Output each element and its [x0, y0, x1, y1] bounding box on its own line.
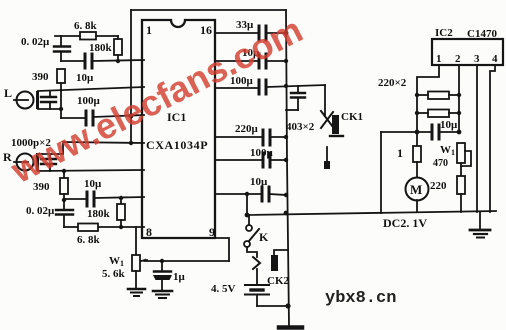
resistor 220 a	[428, 92, 449, 100]
input jack R	[17, 154, 34, 171]
wire L bottom rail	[38, 108, 61, 110]
svg-text:1: 1	[397, 146, 403, 160]
wire R top rail	[38, 153, 63, 155]
wire top rail from bias column to bus	[131, 9, 286, 11]
svg-text:10μ: 10μ	[440, 119, 458, 131]
svg-text:10μ: 10μ	[84, 178, 102, 190]
svg-text:180k: 180k	[89, 42, 113, 54]
jack CK2	[247, 247, 257, 257]
capacitor 100u lower	[262, 153, 265, 167]
wire pin16 33u output	[215, 32, 258, 34]
svg-text:6. 8k: 6. 8k	[77, 234, 101, 246]
svg-text:1μ: 1μ	[173, 271, 186, 283]
resistor 180k top	[114, 39, 122, 55]
junction 180k bottom	[116, 59, 120, 63]
resistor 180k bottom	[119, 196, 123, 200]
svg-text:2: 2	[455, 53, 461, 65]
resistor 6.8k top	[80, 32, 96, 40]
capacitor 100u input L	[61, 117, 85, 119]
wire IC2 pin3	[476, 65, 478, 212]
capacitor 10u bottom series	[64, 198, 86, 200]
site label ybx8.cn	[325, 289, 396, 308]
capacitor 10u top series	[84, 54, 87, 68]
capacitor 10u bottom right	[261, 187, 264, 201]
capacitor 220u	[262, 130, 265, 145]
svg-text:10μ: 10μ	[76, 72, 94, 84]
capacitor 33u	[258, 26, 261, 40]
resistor 220 b	[428, 110, 449, 118]
potentiometer W1 5.6k	[135, 227, 137, 255]
svg-text:K: K	[259, 230, 269, 244]
IC1 CXA1034P body	[142, 20, 215, 238]
svg-text:CXA1034P: CXA1034P	[146, 138, 208, 152]
svg-text:220×2: 220×2	[378, 77, 407, 89]
switch K	[248, 215, 250, 225]
svg-text:100μ: 100μ	[77, 95, 101, 107]
wire drop to switch K	[245, 192, 249, 196]
resistor 1	[416, 132, 418, 146]
DC supply rail	[247, 211, 496, 215]
wire pin 9 down	[215, 238, 229, 261]
IC2 C1470 box	[432, 39, 503, 65]
svg-text:4. 5V: 4. 5V	[211, 283, 236, 295]
resistor 6.8k bottom	[64, 226, 78, 228]
capacitor 1000p L	[49, 92, 51, 96]
motor M	[406, 178, 429, 201]
wire feedback node L to IC pin2	[61, 60, 84, 62]
ground below 1u	[153, 290, 172, 293]
svg-text:6. 8k: 6. 8k	[74, 20, 98, 32]
capacitor 100u right	[258, 80, 261, 94]
svg-text:0. 02μ: 0. 02μ	[21, 36, 50, 48]
svg-text:10μ: 10μ	[250, 176, 268, 188]
capacitor shunt at headphone line	[297, 86, 299, 92]
watermark www.elecfans.com	[4, 9, 309, 192]
svg-text:16: 16	[200, 23, 212, 37]
wire IC2 pin4	[490, 65, 495, 212]
wire R bottom rail to IC pin5	[38, 170, 144, 171]
resistor 220 right	[457, 176, 465, 194]
wire wiper line to pin 9 column	[146, 260, 229, 262]
capacitor 10u right	[258, 54, 261, 68]
ground right	[479, 212, 481, 230]
wire DC feed with 10u cap	[381, 131, 431, 133]
svg-text:IC2: IC2	[435, 27, 453, 39]
ground bottom center	[279, 325, 302, 330]
resistor 390 top	[57, 69, 65, 83]
svg-text:8: 8	[146, 225, 152, 239]
resistor 390 bottom	[63, 171, 65, 178]
svg-text:DC2. 1V: DC2. 1V	[383, 216, 427, 230]
svg-text:C1470: C1470	[467, 28, 497, 40]
power bus vertical	[286, 10, 289, 325]
svg-text:3: 3	[474, 53, 480, 65]
svg-text:390: 390	[32, 71, 49, 83]
capacitor 1u	[161, 261, 163, 271]
wire 10u right output	[215, 60, 258, 62]
svg-text:CK1: CK1	[341, 111, 363, 123]
capacitor 0.02u bottom	[63, 200, 65, 209]
ground below W1	[128, 288, 145, 291]
wire IC2 pin1	[417, 65, 439, 132]
svg-text:W1: W1	[440, 144, 455, 157]
svg-text:220: 220	[430, 180, 447, 192]
potentiometer W1 470	[457, 143, 465, 163]
wire 10u bottom output	[215, 193, 261, 195]
wire 6.8k node	[55, 35, 80, 37]
svg-text:180k: 180k	[87, 208, 111, 220]
wire 100u lower output	[215, 159, 262, 161]
wire down to DC rail	[380, 132, 382, 213]
capacitor 10u IC2	[431, 125, 434, 139]
svg-text:CK2: CK2	[267, 275, 290, 287]
junction bias column on L input wire	[129, 114, 134, 119]
input jack L	[17, 92, 34, 109]
capacitor 0.02u top	[60, 36, 62, 45]
capacitor 1000p R	[49, 155, 51, 158]
svg-text:L: L	[4, 86, 12, 100]
svg-text:470: 470	[433, 158, 448, 169]
svg-text:403×2: 403×2	[286, 121, 315, 133]
headphone jack CK1	[324, 85, 326, 116]
svg-text:4: 4	[492, 53, 498, 65]
svg-text:M: M	[410, 182, 422, 197]
wire bias column x131	[130, 10, 132, 143]
svg-text:220μ: 220μ	[235, 123, 259, 135]
wire IC2 pin2	[458, 65, 460, 132]
svg-text:1: 1	[436, 53, 442, 65]
wire 390L junction column	[60, 90, 62, 118]
svg-text:W1: W1	[109, 255, 124, 268]
svg-text:9: 9	[209, 225, 215, 239]
svg-text:5. 6k: 5. 6k	[102, 268, 126, 280]
svg-text:1: 1	[146, 23, 152, 37]
svg-text:0. 02μ: 0. 02μ	[26, 205, 55, 217]
wire 220u output	[215, 136, 262, 138]
wire 100u right output	[215, 87, 258, 89]
battery 4.5V	[256, 269, 258, 285]
svg-text:100μ: 100μ	[250, 147, 274, 159]
wire L top rail	[38, 87, 144, 91]
wire into IC pin4 from R top rail	[63, 142, 144, 154]
